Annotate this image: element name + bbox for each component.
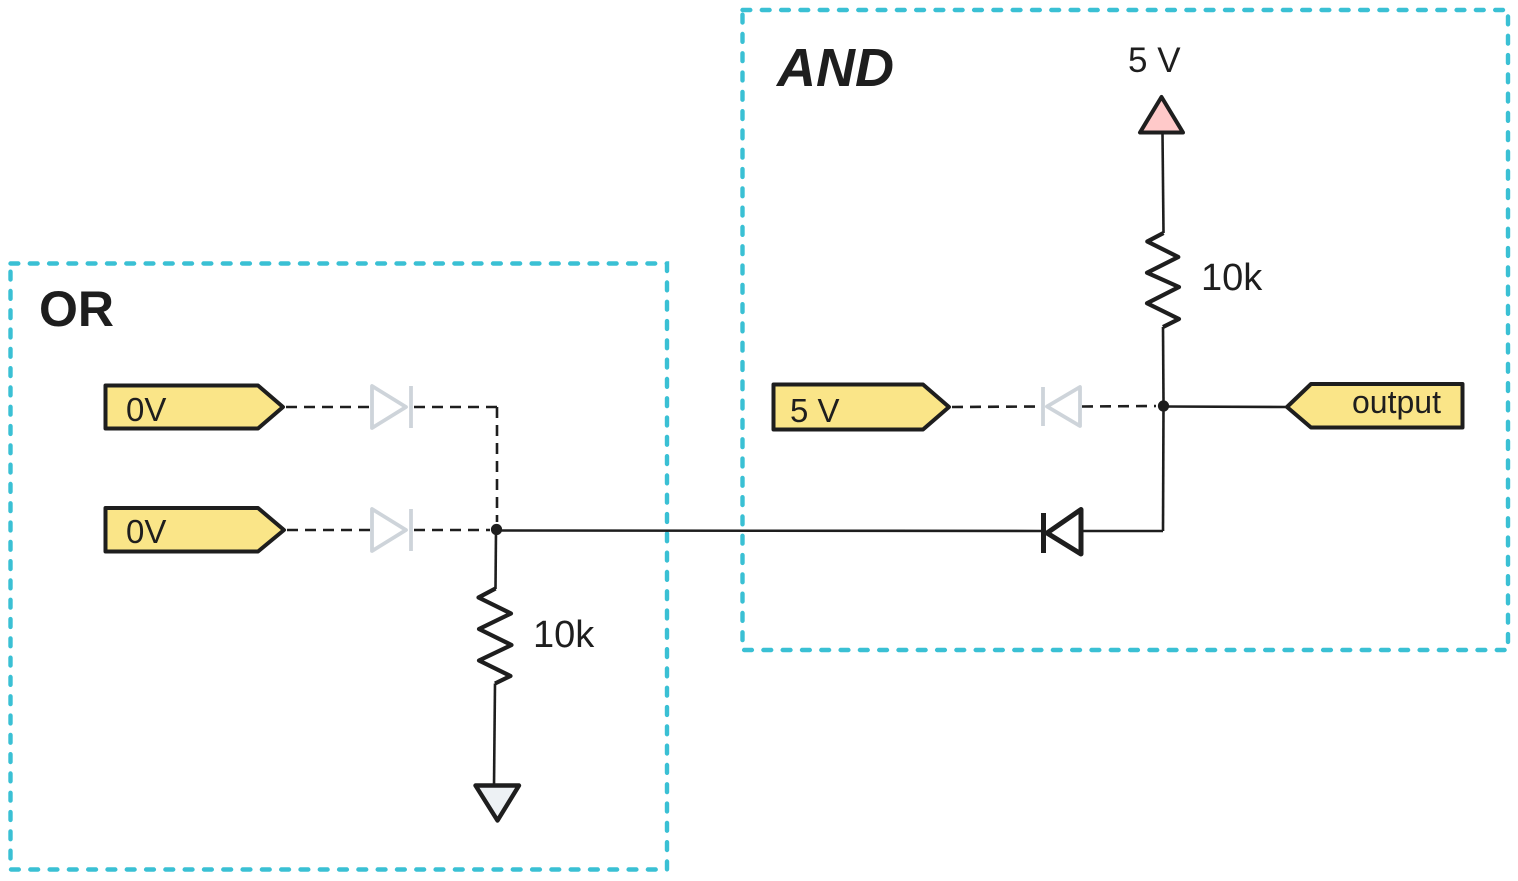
svg-text:5 V: 5 V [790,392,840,429]
wire OR junction to diode D4 [496,529,1041,532]
resistor R1 [479,589,512,684]
svg-text:output: output [1352,384,1441,420]
OR region box [11,264,668,870]
svg-text:5 V: 5 V [1128,41,1181,80]
resistor R2 [1147,233,1179,327]
net flag IN1 0V [106,386,284,429]
ground [476,786,520,821]
diode D3 [1043,387,1080,426]
power symbol 5V [1140,97,1183,133]
wire D2 to junction (dashed) [414,529,490,532]
wire corner to D4 [1082,530,1163,533]
wire IN1 to D1 (dashed) [286,406,370,409]
wire node to output flag [1164,405,1289,408]
wire R1 to ground [494,684,495,787]
wire R2 to node [1162,327,1165,402]
wire power to R2 [1163,133,1164,233]
wire junction to resistor R1 [494,530,497,589]
svg-text:10k: 10k [1201,257,1263,299]
svg-text:10k: 10k [533,614,595,656]
junction node OR [491,524,502,535]
node AND [1158,400,1169,411]
wire D3 to node (dashed) [1082,405,1156,408]
net flag 5V input [774,385,950,430]
wire 5V flag to D3 (dashed) [952,405,1039,408]
diode D1 [372,386,411,428]
wire corner down to junction (dashed) [496,407,499,522]
net flag output [1287,384,1463,428]
diode D2 [372,509,411,551]
svg-text:0V: 0V [126,391,166,428]
net flag IN2 0V [106,508,285,552]
svg-text:0V: 0V [126,513,166,550]
wire D1 to corner (dashed) [414,406,497,409]
svg-text:AND: AND [775,38,894,98]
wire IN2 to D2 (dashed) [287,529,370,532]
wire node down to corner [1162,406,1165,531]
diode D4 [1044,510,1082,555]
svg-text:OR: OR [39,281,114,337]
AND region box [743,10,1509,650]
